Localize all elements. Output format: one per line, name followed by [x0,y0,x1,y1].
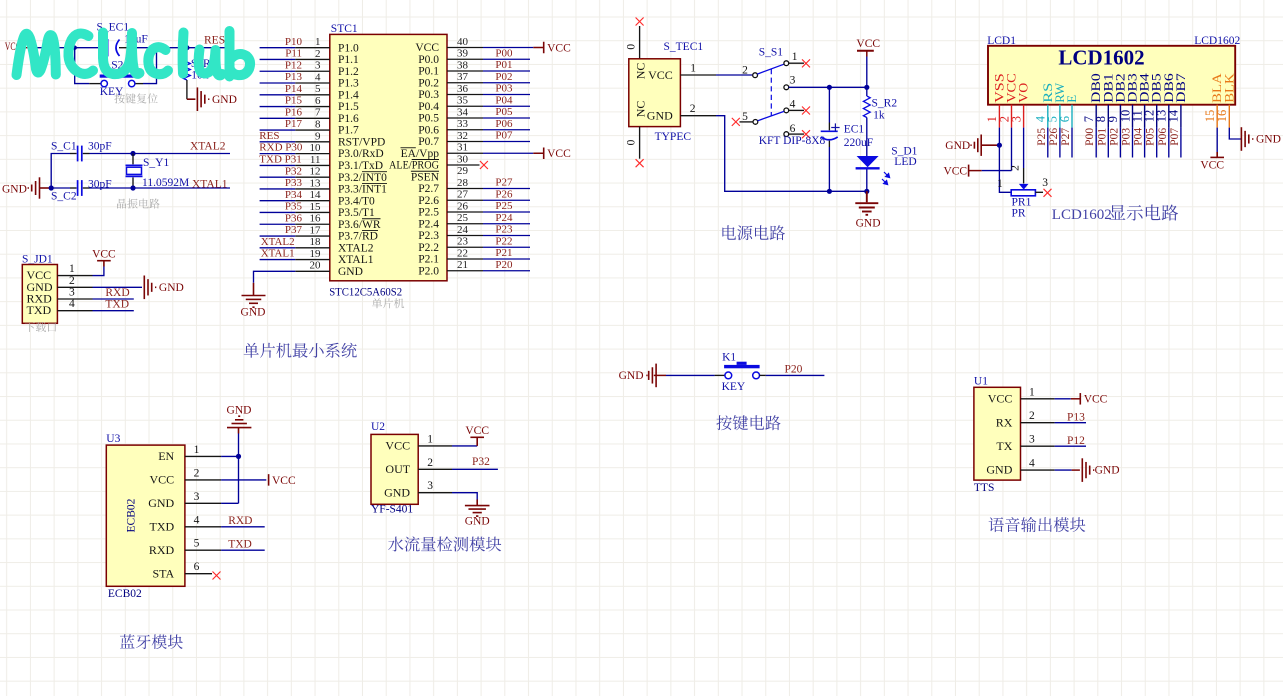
svg-text:4: 4 [1029,458,1035,470]
svg-text:LCD1602: LCD1602 [1052,207,1112,223]
svg-text:P2.3: P2.3 [418,230,439,242]
LED S_D1 [857,156,879,167]
pin 2 wire (TYPEC) [680,115,716,117]
svg-text:3: 3 [315,60,321,72]
pin 3 wire (U3) [185,502,221,504]
svg-text:P20: P20 [785,364,803,376]
svg-text:16: 16 [310,213,322,225]
svg-text:P36: P36 [285,212,303,224]
svg-text:5: 5 [742,111,748,123]
svg-text:3: 3 [69,287,75,299]
svg-text:24: 24 [457,224,469,236]
svg-text:14: 14 [1167,109,1181,122]
svg-text:36: 36 [457,83,469,95]
svg-text:P1.2: P1.2 [338,66,359,78]
wire TYPEC top [639,26,641,59]
junction reset-resistor [184,45,189,50]
capacitor S_C1 [70,153,77,155]
svg-text:30pF: 30pF [88,141,112,153]
svg-text:P0.2: P0.2 [418,77,439,89]
svg-text:RX: RX [996,415,1013,429]
svg-text:P01: P01 [1096,128,1108,146]
svg-text:4: 4 [315,71,321,83]
svg-text:PSEN: PSEN [411,171,440,183]
svg-text:22: 22 [457,247,468,259]
svg-text:3: 3 [427,480,433,492]
caption dan-pian-ji-zui-xiao-xi-tong [244,343,357,358]
svg-text:XTAL2: XTAL2 [261,236,295,248]
svg-text:XTAL2: XTAL2 [338,242,374,254]
svg-text:GND: GND [647,108,673,122]
caption xia-zai-kou (download port) [25,322,57,332]
svg-text:STA: STA [152,566,174,580]
svg-text:P0.5: P0.5 [418,113,439,125]
svg-text:P03: P03 [495,83,513,95]
svg-text:P07: P07 [1169,128,1181,146]
ground (U1) [1082,458,1094,482]
svg-text:P06: P06 [1157,128,1169,146]
svg-text:BLK: BLK [1221,73,1236,103]
pin 1 wire (U1) [1021,398,1055,400]
svg-text:KEY: KEY [722,381,746,393]
svg-text:TXD P31: TXD P31 [259,154,301,166]
power port VCC (U1) [1079,393,1081,405]
svg-text:2: 2 [690,103,696,115]
pin 20 wire GND (STC1) [295,270,330,272]
IC STC1 right pin numbers [457,36,469,271]
svg-text:P2.1: P2.1 [418,254,439,266]
pin 5 wire (U3) [185,549,221,551]
svg-text:DB7: DB7 [1173,73,1188,103]
svg-text:10: 10 [310,142,322,154]
svg-text:P12: P12 [285,59,302,71]
svg-text:13: 13 [310,177,322,189]
svg-text:EA/Vpp: EA/Vpp [401,148,440,160]
svg-text:VCC: VCC [415,42,439,54]
svg-text:37: 37 [457,71,469,83]
svg-text:9: 9 [315,130,321,142]
svg-text:P12: P12 [1067,435,1085,447]
svg-text:P2.4: P2.4 [418,218,439,230]
wire XTAL2 [90,153,134,155]
svg-text:GND: GND [241,306,266,318]
svg-text:3: 3 [1042,177,1048,189]
svg-text:12: 12 [310,166,321,178]
svg-text:P3.3/INT1: P3.3/INT1 [338,184,387,196]
svg-text:P3.5/T1: P3.5/T1 [338,207,375,219]
svg-text:NC: NC [634,63,648,80]
svg-text:6: 6 [194,561,200,573]
svg-text:P33: P33 [285,177,303,189]
svg-text:S_C1: S_C1 [51,141,77,153]
svg-text:2: 2 [69,275,75,287]
svg-text:P32: P32 [472,456,490,468]
svg-text:OUT: OUT [385,462,410,476]
svg-text:35: 35 [457,95,469,107]
svg-text:TTS: TTS [974,482,994,494]
caption yu-yin-shu-chu (voice) [989,517,1086,532]
wire switch branch [75,48,90,84]
svg-text:VCC: VCC [856,38,880,50]
svg-text:P05: P05 [1145,128,1157,146]
IC STC1 right pin wires [447,270,483,272]
IC STC1 left pin numbers [310,36,322,272]
junction GND rail [864,189,869,194]
svg-text:PR1: PR1 [1012,197,1032,209]
svg-text:KFT DIP-8X8: KFT DIP-8X8 [759,135,826,147]
svg-text:3: 3 [790,75,796,87]
svg-text:2: 2 [194,467,200,479]
junction crystal top [130,151,135,156]
svg-text:6: 6 [1058,116,1072,122]
svg-text:0: 0 [626,44,638,50]
capacitor S_C2 [51,187,70,189]
svg-text:P0.6: P0.6 [418,124,439,136]
svg-text:PR: PR [1012,208,1026,220]
switch S_S1 dashed link [770,69,772,116]
svg-text:3: 3 [194,491,200,503]
svg-text:P2.7: P2.7 [418,183,439,195]
svg-text:GND: GND [465,516,490,528]
svg-text:ALE/PROG: ALE/PROG [389,160,439,172]
svg-text:P22: P22 [495,235,512,247]
svg-text:17: 17 [310,224,322,236]
svg-text:GND: GND [384,485,410,499]
svg-text:P20: P20 [495,259,513,271]
svg-text:XTAL1: XTAL1 [261,248,295,260]
pin 1 wire (U3) [185,455,221,457]
svg-text:U1: U1 [974,375,988,387]
svg-text:P23: P23 [495,224,513,236]
svg-text:P0.0: P0.0 [418,54,439,66]
svg-text:TYPEC: TYPEC [655,131,692,143]
svg-text:S_JD1: S_JD1 [22,253,53,265]
junction VCC rail [864,85,869,90]
svg-text:20: 20 [310,260,322,272]
IC LCD1 pin stubs [998,105,1000,128]
svg-text:P04: P04 [495,94,513,106]
caption shui-liu-liang (water flow) [388,536,501,551]
svg-text:S_R2: S_R2 [872,97,898,109]
svg-text:P10: P10 [285,36,303,48]
caption lan-ya-mo-kuai (bluetooth) [120,634,183,649]
svg-text:P25: P25 [1036,128,1048,146]
svg-text:40: 40 [457,36,469,48]
svg-text:P3.6/WR: P3.6/WR [338,219,381,231]
svg-text:XTAL2: XTAL2 [190,140,226,152]
MCUclub logo [17,31,251,77]
caption an-jian-fu-wei (reset) [114,93,157,103]
power port VCC (BLA) [1210,152,1224,157]
svg-text:26: 26 [457,200,469,212]
svg-text:1: 1 [194,444,200,456]
svg-text:16: 16 [1215,110,1229,123]
svg-text:39: 39 [457,48,469,60]
junction U3 EN [236,454,241,459]
wire crystal left vertical [51,154,70,189]
junction EC1 bottom [827,189,832,194]
no connect X (U3 pin6) [213,572,221,580]
pin 2 wire (U1) [1021,422,1055,424]
svg-text:P1.5: P1.5 [338,101,359,113]
svg-text:P05: P05 [495,106,513,118]
svg-text:ECB02: ECB02 [126,498,138,532]
switch S_S1 pin4 contact [784,108,789,113]
svg-text:P35: P35 [285,201,303,213]
svg-text:P1.1: P1.1 [338,54,359,66]
svg-text:1k: 1k [873,109,885,121]
svg-text:XTAL1: XTAL1 [192,179,228,191]
svg-text:VCC: VCC [547,42,571,54]
wire key right [760,374,766,376]
svg-text:P26: P26 [1048,128,1060,146]
svg-text:220uF: 220uF [844,137,873,149]
svg-text:P13: P13 [285,71,303,83]
svg-text:S_S1: S_S1 [759,47,784,59]
svg-text:GND: GND [945,140,970,152]
svg-text:1: 1 [997,178,1003,190]
wire reset mid [133,47,187,49]
svg-text:P00: P00 [495,47,513,59]
caption dan-pian-ji (MCU) [372,298,404,308]
svg-text:28: 28 [457,177,469,189]
svg-text:GND: GND [159,282,184,294]
svg-text:P3.1/TxD: P3.1/TxD [338,160,383,172]
svg-text:P1.3: P1.3 [338,78,359,90]
svg-text:P34: P34 [285,189,303,201]
svg-text:P0.1: P0.1 [418,66,439,78]
svg-text:0: 0 [626,139,638,145]
svg-text:VCC: VCC [150,473,175,487]
svg-text:S_Y1: S_Y1 [143,157,169,169]
ground (STC1) [242,283,266,307]
svg-text:TXD: TXD [150,519,175,533]
svg-text:NC: NC [634,101,648,118]
wire TYPEC bottom [639,127,641,159]
svg-text:RES: RES [259,130,279,142]
svg-text:EN: EN [158,449,174,463]
wire BLA to VCC [1216,128,1218,152]
svg-text:P2.5: P2.5 [418,207,439,219]
svg-text:TXD: TXD [228,538,252,550]
svg-text:P25: P25 [495,200,513,212]
svg-text:32: 32 [457,130,468,142]
svg-text:VO: VO [1016,83,1031,103]
svg-text:VCC: VCC [1200,160,1224,172]
svg-text:P2.0: P2.0 [418,265,439,277]
svg-text:GND: GND [1256,134,1281,146]
crystal S_Y1 [132,154,134,165]
wire BLK to GND [1229,128,1241,139]
IC STC1 left net labels [259,36,303,260]
svg-text:VCC: VCC [943,166,967,178]
svg-text:P2.2: P2.2 [418,242,439,254]
svg-text:P13: P13 [1067,411,1085,423]
junction crystal bottom [130,185,135,190]
pin 3 wire (S_JD1) [57,298,92,300]
junction VSS-GND [997,143,1002,148]
wire key left [666,374,715,376]
svg-text:ECB02: ECB02 [108,588,142,600]
svg-text:KEY: KEY [100,86,124,98]
junction reset-switch left [73,46,77,50]
ground (U2) [465,500,490,517]
pin 4 wire (S_JD1) [57,310,92,312]
no connect X (PR1 pin3) [1044,189,1052,197]
junction crystal-gnd [49,185,54,190]
svg-text:11: 11 [310,154,321,166]
caption dian-yuan-dian-lu (power) [722,225,785,240]
switch S_S2 [101,80,107,86]
svg-text:RST/VPD: RST/VPD [338,136,385,148]
wire XTAL1 [90,187,134,189]
svg-text:GND: GND [148,496,174,510]
svg-text:VCC: VCC [1084,394,1108,406]
svg-text:P37: P37 [285,224,303,236]
svg-text:23: 23 [457,236,469,248]
svg-text:P3.2/INT0: P3.2/INT0 [338,172,387,184]
svg-text:E: E [1064,95,1079,103]
svg-text:29: 29 [457,165,469,177]
svg-text:4: 4 [194,514,200,526]
svg-text:VCC: VCC [988,391,1013,405]
svg-text:RXD: RXD [228,515,252,527]
svg-text:STC12C5A60S2: STC12C5A60S2 [329,287,402,299]
svg-text:VCC: VCC [272,475,296,487]
no connect X bottom (TYPEC) [636,159,644,167]
switch S_S1 pin6 contact [784,132,789,137]
svg-text:7: 7 [315,107,321,119]
switch S_S1 pin1 contact [784,61,789,66]
svg-text:2: 2 [1029,410,1035,422]
pin 3 wire (U1) [1021,445,1055,447]
svg-text:P3.0/RxD: P3.0/RxD [338,148,384,160]
switch S_S1 pin2 contact [753,73,758,78]
svg-text:33: 33 [457,118,469,130]
svg-text:P1.6: P1.6 [338,113,359,125]
svg-text:P1.7: P1.7 [338,125,359,137]
svg-text:2: 2 [742,65,748,77]
pin 1 wire (U2) [418,445,452,447]
svg-text:VCC: VCC [547,148,571,160]
svg-text:P14: P14 [285,83,303,95]
svg-text:P2.6: P2.6 [418,195,439,207]
no connect X top (TYPEC) [636,18,644,26]
svg-text:P17: P17 [285,118,303,130]
IC STC1 left pin wires [260,47,296,49]
svg-text:VCC: VCC [385,439,410,453]
svg-text:RXD P30: RXD P30 [259,142,303,154]
resistor S_R2 [866,88,868,97]
svg-text:21: 21 [457,259,468,271]
ground (S_JD1) [144,276,156,300]
capacitor S_EC1 [101,47,107,49]
svg-text:P01: P01 [495,59,512,71]
no connect X pin 30 [480,161,488,169]
wire VO to pot wiper [1023,128,1025,168]
svg-text:K1: K1 [722,351,736,363]
pin 3 wire (U2) [418,492,452,494]
svg-text:14: 14 [310,189,322,201]
svg-text:2: 2 [315,48,321,60]
svg-text:LED: LED [894,156,916,168]
svg-text:P02: P02 [1108,128,1120,146]
svg-text:P26: P26 [495,188,513,200]
svg-text:P1.0: P1.0 [338,42,359,54]
svg-text:27: 27 [457,189,469,201]
svg-text:P0.4: P0.4 [418,101,439,113]
svg-text:GND: GND [986,463,1012,477]
svg-text:TXD: TXD [27,303,52,317]
svg-text:P21: P21 [495,247,512,259]
svg-text:31: 31 [457,142,468,154]
power port VCC (U3) [268,474,270,486]
svg-text:5: 5 [194,538,200,550]
svg-text:P0.7: P0.7 [418,136,439,148]
pin 4 wire (U3) [185,526,221,528]
pin 6 wire (U3) [185,573,212,575]
svg-text:VCC: VCC [465,425,489,437]
svg-text:XTAL1: XTAL1 [338,254,374,266]
IC STC1 right net labels [495,47,513,271]
svg-text:RXD: RXD [105,287,129,299]
svg-text:38: 38 [457,59,469,71]
capacitor EC1 [828,88,830,123]
svg-text:STC1: STC1 [331,23,358,35]
svg-text:EC1: EC1 [844,123,865,135]
ground (key circuit) [646,364,656,388]
IC STC1 right pin name overlines [401,148,440,172]
svg-text:P27: P27 [495,177,513,189]
svg-text:34: 34 [457,106,469,118]
svg-text:P03: P03 [1121,128,1133,146]
caption an-jian-dian-lu (key) [716,415,780,430]
pin 2 wire (U3) [185,479,221,481]
power port VCC (S_JD1) [97,261,111,267]
svg-text:3: 3 [1029,434,1035,446]
svg-text:P11: P11 [285,48,302,60]
svg-text:P04: P04 [1133,128,1145,146]
svg-text:P15: P15 [285,95,303,107]
svg-text:P07: P07 [495,130,513,142]
svg-text:1: 1 [792,51,798,63]
IC STC1 left pin name overlines [362,172,387,231]
svg-text:GND: GND [227,405,252,417]
svg-text:TXD: TXD [105,299,129,311]
svg-text:GND: GND [338,266,363,278]
svg-text:U2: U2 [371,421,385,433]
pin 2 wire (S_JD1) [57,286,92,288]
svg-text:GND: GND [619,370,644,382]
caption jing-zhen-dian-lu (crystal) [117,199,160,209]
wire reset main left [33,47,101,49]
IC STC1 left pin names [338,42,387,278]
resistor S_R1 [186,48,188,62]
svg-text:P16: P16 [285,106,303,118]
svg-text:1: 1 [690,63,696,75]
switch S_S1 pin5 contact [732,118,740,126]
svg-text:U3: U3 [106,433,120,445]
switch S_S1 pin3 contact [784,85,789,90]
svg-text:1: 1 [1029,386,1035,398]
svg-text:GND: GND [2,183,27,195]
ground (power circuit) [855,191,878,215]
svg-text:P24: P24 [495,212,513,224]
power port VCC (pin40) [533,47,543,49]
svg-text:6: 6 [790,123,796,135]
svg-text:P1.4: P1.4 [338,89,359,101]
svg-text:4: 4 [69,298,75,310]
